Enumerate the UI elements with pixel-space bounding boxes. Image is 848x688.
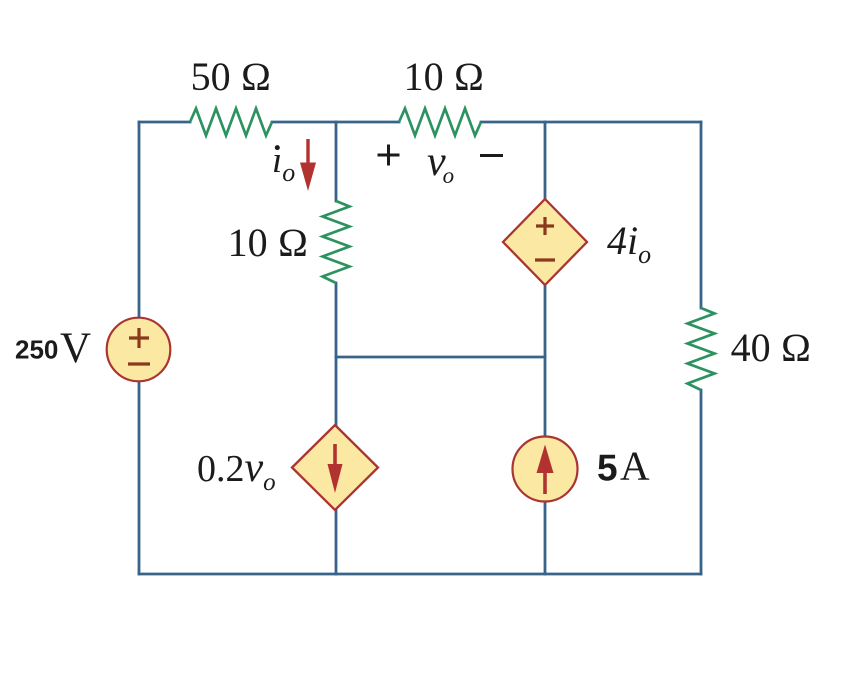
resistor R 10ohm vertical zigzag [323,201,350,283]
label vo [427,139,454,188]
label 4io [607,218,651,269]
svg-text:50 Ω: 50 Ω [191,54,272,99]
resistor R 50ohm zigzag [190,109,272,136]
wire middle-left vertical upper (node between 50ohm and 10ohm) [335,122,338,201]
label 250V [15,325,91,372]
wire bottom rail [139,573,701,576]
dependent current source 0.2vo diamond [292,425,378,510]
wire middle-right vertical middle [544,285,547,437]
svg-text:5: 5 [597,448,618,489]
wire left rail upper [138,122,141,318]
svg-text:A: A [620,443,650,489]
polarity plus sign for vo [378,145,400,166]
label 10ohm top [404,54,485,99]
wire middle-left vertical middle [335,283,338,425]
wire right rail upper [700,122,703,308]
wire top rail left segment [139,121,190,124]
svg-text:4io: 4io [607,218,651,269]
svg-text:40 Ω: 40 Ω [731,325,812,370]
current arrow io [300,139,316,191]
polarity minus sign for vo [480,154,503,157]
label 40ohm [731,325,812,370]
resistor R 40ohm zigzag [688,308,715,390]
wire top rail right segment [481,121,701,124]
label 50ohm [191,54,272,99]
svg-text:10 Ω: 10 Ω [228,220,309,265]
svg-text:V: V [60,325,91,372]
resistor R 10ohm top zigzag [399,109,481,136]
wire right rail lower [700,390,703,574]
svg-text:vo: vo [427,139,454,188]
current source I1 5A circle [513,437,578,502]
wire top rail middle segment [272,121,399,124]
wire left rail lower [138,382,141,575]
wire center horizontal tie [336,356,545,359]
wire middle-left vertical lower [335,510,338,574]
label 5A [597,443,650,489]
label io [272,140,295,187]
svg-text:10 Ω: 10 Ω [404,54,485,99]
wire middle-right vertical upper [544,122,547,199]
svg-text:0.2vo: 0.2vo [197,445,276,496]
label 10ohm vertical [228,220,309,265]
dependent voltage source 4io diamond [503,199,587,285]
voltage source V1 250V circle [107,318,171,382]
svg-text:250: 250 [15,335,58,365]
wire middle-right vertical lower [544,501,547,574]
label 0.2vo [197,445,276,496]
